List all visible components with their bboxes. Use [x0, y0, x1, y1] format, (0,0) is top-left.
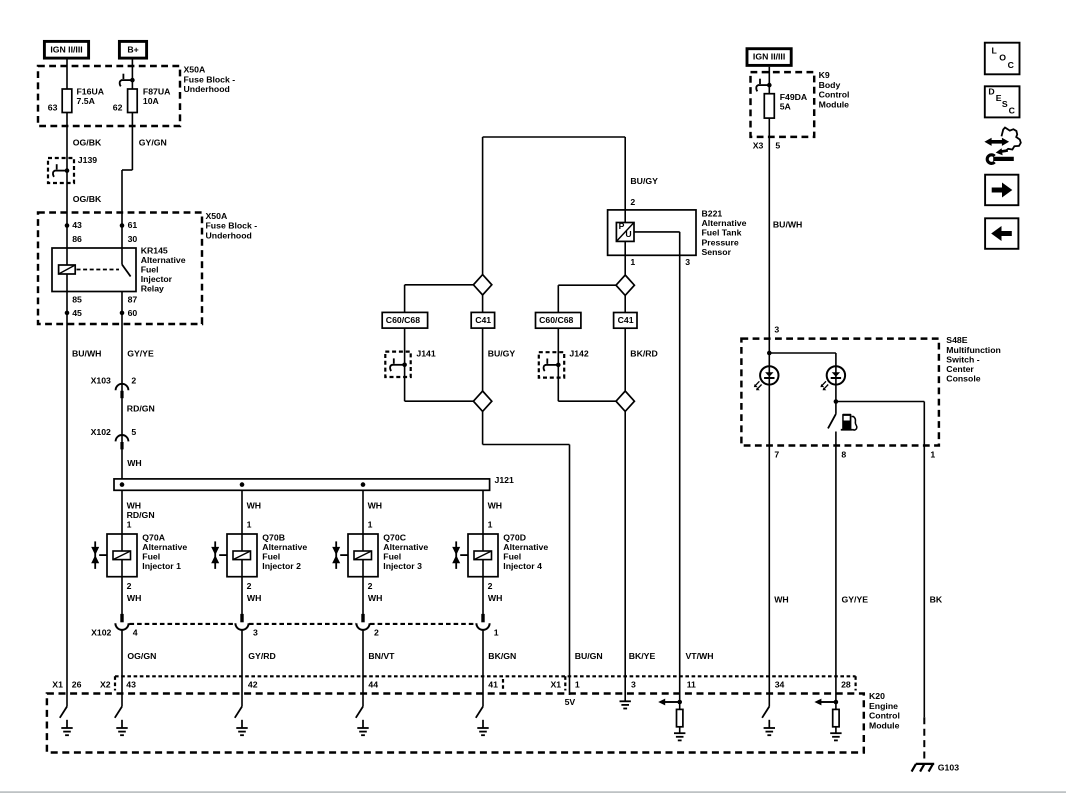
ECM pull-up and ground pin 11	[677, 700, 682, 705]
svg-text:Module: Module	[819, 99, 850, 109]
indicator LED 2	[835, 366, 837, 401]
injector Q70C valve symbol	[335, 541, 337, 569]
svg-text:Console: Console	[946, 374, 980, 384]
svg-text:28: 28	[841, 679, 851, 689]
svg-text:BU/WH: BU/WH	[72, 348, 101, 358]
wire C41 right column	[624, 295, 626, 312]
ECM driver switch and ground pin 43	[115, 707, 122, 718]
connector X102 inline symbol col 2	[240, 614, 243, 622]
relay KR145 switch	[121, 248, 123, 265]
injector Q70B Q70B box	[227, 534, 257, 577]
connector X102 inline symbol col 4	[481, 614, 484, 622]
svg-text:Fuel: Fuel	[141, 265, 159, 275]
ECM driver switch and ground pin 41	[476, 707, 483, 718]
svg-text:41: 41	[488, 679, 498, 689]
svg-text:Relay: Relay	[141, 284, 164, 294]
svg-text:X50A: X50A	[184, 65, 206, 75]
wire BK to ground G103 dashed segment	[923, 717, 925, 762]
sidebar repair icon small arrow	[1000, 150, 1008, 151]
injector Q70C Q70C box	[348, 534, 378, 577]
wire IGN to K9 fuse	[768, 67, 770, 94]
svg-text:RD/GN: RD/GN	[127, 404, 155, 414]
injector Q70A valve symbol	[94, 541, 96, 569]
branch wires upper left splice	[405, 284, 474, 286]
multifunction switch S48E dashed box	[741, 339, 939, 446]
svg-text:F87UA: F87UA	[143, 86, 171, 96]
wire 5V reference to ECM pin 1	[482, 411, 484, 444]
wire BU/WH relay 85 to ECM pin 26	[66, 274, 68, 707]
svg-text:OG/GN: OG/GN	[127, 651, 156, 661]
injector Q70D coil	[482, 534, 484, 551]
svg-text:1: 1	[488, 520, 493, 530]
svg-text:RD/GN: RD/GN	[127, 510, 155, 520]
splice diamond lower left	[405, 400, 474, 402]
svg-text:S: S	[1002, 99, 1008, 109]
ECM driver switch and ground pin 26	[60, 707, 67, 718]
wire WH injector Q70B to X102	[241, 577, 243, 615]
svg-text:2: 2	[131, 376, 136, 386]
svg-text:X50A: X50A	[206, 211, 228, 221]
wire J121 to injector Q70A	[121, 490, 123, 534]
node pin 61	[120, 223, 125, 228]
relay KR145 coil	[59, 265, 76, 274]
injector Q70A Q70A box	[107, 534, 137, 577]
fuse block X50A (lower) dashed box	[38, 213, 202, 325]
wire J141 branch	[404, 328, 406, 401]
svg-text:C: C	[1008, 60, 1015, 70]
wire WH injector Q70A to X102	[121, 577, 123, 615]
svg-text:8: 8	[841, 449, 846, 459]
injector Q70B coil	[241, 534, 243, 551]
relay KR145 box	[52, 248, 136, 292]
splice J141 dashed box	[385, 352, 410, 377]
pressure sensor B221 box	[608, 210, 696, 255]
svg-text:C41: C41	[618, 315, 634, 325]
svg-text:WH: WH	[247, 593, 261, 603]
splice diamond upper right	[616, 275, 634, 295]
svg-text:WH: WH	[774, 595, 788, 605]
svg-text:WH: WH	[127, 500, 141, 510]
svg-text:B221: B221	[702, 209, 723, 219]
svg-text:OG/BK: OG/BK	[73, 137, 102, 147]
svg-text:Underhood: Underhood	[206, 230, 252, 240]
B221 internal wire to pin 3	[634, 231, 680, 233]
ECM driver switch and ground pin 44	[356, 707, 363, 718]
connector C41 box (right)	[614, 313, 637, 329]
svg-text:X1: X1	[52, 679, 63, 689]
svg-text:WH: WH	[368, 500, 382, 510]
splice J142 dashed box	[539, 352, 564, 377]
svg-text:G103: G103	[938, 763, 959, 773]
svg-text:J121: J121	[495, 475, 514, 485]
svg-text:GY/YE: GY/YE	[127, 348, 154, 358]
sidebar repair icon wrench	[987, 155, 994, 164]
svg-text:60: 60	[128, 308, 138, 318]
svg-text:GY/RD: GY/RD	[248, 651, 276, 661]
svg-text:WH: WH	[488, 593, 502, 603]
svg-text:GY/GN: GY/GN	[139, 137, 167, 147]
svg-text:IGN II/III: IGN II/III	[50, 44, 82, 54]
fuse F49DA 5A	[764, 94, 774, 118]
splice J142 clip symbol	[556, 363, 561, 368]
node pin 43	[65, 223, 70, 228]
svg-text:BU/GY: BU/GY	[630, 176, 658, 186]
power feed box IGN II/III (right)	[747, 49, 791, 66]
svg-text:3: 3	[774, 325, 779, 335]
svg-text:X1: X1	[551, 679, 562, 689]
svg-text:Pressure: Pressure	[702, 237, 739, 247]
svg-text:Alternative: Alternative	[141, 255, 186, 265]
svg-text:1: 1	[630, 257, 635, 267]
svg-text:Engine: Engine	[869, 701, 898, 711]
svg-text:Center: Center	[946, 364, 974, 374]
svg-text:2: 2	[127, 581, 132, 591]
svg-text:Alternative: Alternative	[383, 542, 428, 552]
svg-text:C: C	[1009, 105, 1016, 115]
svg-text:Injector 4: Injector 4	[503, 561, 542, 571]
node pin 45	[65, 311, 70, 316]
wire injector Q70C to ECM	[362, 630, 364, 706]
svg-text:Q70A: Q70A	[142, 533, 165, 543]
svg-text:X102: X102	[91, 628, 111, 638]
wire WH injector Q70D to X102	[482, 577, 484, 615]
svg-text:Alternative: Alternative	[142, 542, 187, 552]
svg-text:X2: X2	[100, 679, 111, 689]
svg-text:2: 2	[368, 581, 373, 591]
J121 junction dots	[120, 482, 125, 487]
sidebar repair icon double arrow	[990, 140, 1003, 144]
sidebar LOC button	[985, 43, 1020, 75]
svg-text:34: 34	[775, 679, 785, 689]
svg-text:Fuel: Fuel	[503, 552, 521, 562]
svg-text:Control: Control	[819, 90, 850, 100]
svg-text:Alternative: Alternative	[262, 542, 307, 552]
svg-text:Fuse Block -: Fuse Block -	[206, 221, 258, 231]
wire BK/YE low reference to ECM pin 3	[624, 411, 626, 701]
engine control module K20 dashed box	[47, 694, 864, 753]
svg-text:43: 43	[126, 679, 136, 689]
wire injector Q70D to ECM	[482, 630, 484, 706]
svg-text:Q70C: Q70C	[383, 533, 406, 543]
svg-text:44: 44	[368, 679, 378, 689]
svg-text:1: 1	[930, 449, 935, 459]
svg-text:X103: X103	[91, 376, 111, 386]
S48E switch branch node	[834, 399, 839, 404]
wire B+ to fuse F87UA	[131, 60, 133, 90]
svg-text:GY/YE: GY/YE	[842, 595, 869, 605]
power feed box B+	[119, 41, 146, 58]
svg-text:1: 1	[247, 520, 252, 530]
svg-text:X102: X102	[91, 427, 111, 437]
svg-text:5A: 5A	[780, 101, 792, 111]
svg-text:3: 3	[253, 628, 258, 638]
svg-text:30: 30	[128, 234, 138, 244]
svg-text:IGN II/III: IGN II/III	[753, 52, 785, 62]
injector Q70B valve symbol	[214, 541, 216, 569]
wire BU/WH K9 to S48E pin 3	[768, 118, 770, 353]
svg-text:OG/BK: OG/BK	[73, 194, 102, 204]
indicator LED 1	[768, 353, 770, 707]
svg-text:BK: BK	[930, 595, 943, 605]
ECM driver switch and ground pin 42	[235, 707, 242, 718]
ECM connector dotted rail	[115, 675, 856, 677]
sidebar back arrow button	[985, 218, 1018, 249]
svg-text:Injector 1: Injector 1	[142, 561, 181, 571]
svg-text:43: 43	[72, 220, 82, 230]
fuse block X50A (upper) dashed box	[38, 66, 180, 126]
svg-text:1: 1	[368, 520, 373, 530]
ECM switch and ground pin 34	[768, 706, 770, 708]
fuel pump icon	[841, 414, 853, 431]
splice diamond lower right	[558, 400, 616, 402]
svg-text:Switch -: Switch -	[946, 354, 979, 364]
splice J141 clip symbol	[402, 363, 407, 368]
svg-text:Fuel Tank: Fuel Tank	[702, 228, 742, 238]
svg-text:Underhood: Underhood	[184, 84, 230, 94]
splice J139 clip symbol	[65, 168, 70, 173]
svg-text:Injector 3: Injector 3	[383, 561, 422, 571]
svg-text:Fuel: Fuel	[262, 552, 280, 562]
wire OG/BK fuse 63 to J139	[66, 113, 68, 266]
svg-text:Alternative: Alternative	[503, 542, 548, 552]
svg-text:WH: WH	[247, 500, 261, 510]
svg-text:K9: K9	[819, 70, 830, 80]
svg-text:5V: 5V	[565, 697, 576, 707]
wire GY/YE relay 87 down	[121, 292, 123, 479]
svg-text:63: 63	[48, 103, 58, 113]
svg-text:X3: X3	[753, 141, 764, 151]
svg-text:45: 45	[72, 308, 82, 318]
svg-text:BU/GN: BU/GN	[575, 651, 603, 661]
svg-text:C60/C68: C60/C68	[386, 315, 420, 325]
svg-text:BU/GY: BU/GY	[488, 348, 516, 358]
body control module K9 dashed box	[751, 72, 815, 137]
svg-text:BU/WH: BU/WH	[773, 220, 802, 230]
svg-text:62: 62	[113, 103, 123, 113]
wire J121 to injector Q70D	[482, 490, 484, 534]
svg-text:J142: J142	[569, 349, 588, 359]
svg-text:Fuse Block -: Fuse Block -	[184, 74, 236, 84]
svg-text:P: P	[619, 221, 625, 231]
S48E internal branch node	[767, 351, 772, 356]
B221 internal wire pin 1	[624, 241, 626, 274]
wire injector Q70B to ECM	[241, 630, 243, 706]
injector Q70A coil	[121, 534, 123, 551]
svg-text:Injector: Injector	[141, 274, 173, 284]
svg-text:L: L	[992, 45, 998, 55]
injector Q70C coil	[362, 534, 364, 551]
wire C41 left column	[482, 295, 484, 313]
svg-text:Q70D: Q70D	[503, 533, 526, 543]
ground G103 symbol	[916, 763, 934, 765]
svg-text:7: 7	[774, 449, 779, 459]
node pin 60	[120, 311, 125, 316]
svg-text:S48E: S48E	[946, 335, 967, 345]
connector X102 inline symbol col 3	[361, 614, 364, 622]
svg-text:1: 1	[575, 679, 580, 689]
sidebar next arrow button	[985, 175, 1018, 206]
svg-text:11: 11	[687, 679, 696, 689]
svg-text:Injector 2: Injector 2	[262, 561, 301, 571]
svg-text:Body: Body	[819, 80, 841, 90]
wire IGN II/III to fuse F16UA	[66, 60, 68, 90]
svg-text:2: 2	[488, 581, 493, 591]
connector X102 inline symbol col 1	[120, 614, 123, 622]
svg-text:Fuel: Fuel	[142, 552, 160, 562]
svg-text:KR145: KR145	[141, 246, 168, 256]
svg-text:F16UA: F16UA	[77, 86, 105, 96]
connector C60/C68 box (left)	[382, 312, 427, 328]
svg-text:2: 2	[630, 197, 635, 207]
svg-text:C60/C68: C60/C68	[539, 315, 573, 325]
svg-text:E: E	[996, 93, 1002, 103]
svg-text:Module: Module	[869, 720, 900, 730]
svg-text:WH: WH	[127, 593, 141, 603]
svg-text:VT/WH: VT/WH	[686, 651, 714, 661]
svg-text:J141: J141	[416, 349, 435, 359]
power feed box IGN II/III (left)	[44, 41, 88, 58]
svg-text:Control: Control	[869, 711, 900, 721]
wire injector Q70A to ECM	[121, 630, 123, 706]
clip symbol in K9	[767, 83, 772, 88]
svg-text:26: 26	[72, 679, 82, 689]
injector Q70D Q70D box	[468, 534, 498, 577]
wire J121 to injector Q70C	[362, 490, 364, 534]
svg-text:4: 4	[133, 628, 138, 638]
svg-text:Sensor: Sensor	[702, 247, 732, 257]
svg-text:5: 5	[131, 427, 136, 437]
svg-text:BK/GN: BK/GN	[488, 651, 516, 661]
svg-text:F49DA: F49DA	[780, 92, 808, 102]
svg-text:2: 2	[374, 628, 379, 638]
wire top run splice to B221 pin 2	[483, 136, 626, 138]
svg-text:BK/RD: BK/RD	[630, 349, 658, 359]
clip symbol on B+ feed	[130, 78, 135, 83]
svg-text:42: 42	[248, 679, 258, 689]
svg-text:Fuel: Fuel	[383, 552, 401, 562]
svg-text:5: 5	[775, 141, 780, 151]
sidebar repair icon panel outline	[1000, 128, 1021, 152]
S48E fuel selector switch	[835, 402, 837, 414]
fuse F87UA 10A	[128, 89, 138, 113]
wire GY/GN fuse 62 down with jog	[131, 113, 133, 171]
injector Q70D valve symbol	[455, 541, 457, 569]
svg-text:D: D	[988, 87, 994, 97]
splice diamond upper left	[473, 275, 491, 295]
svg-text:WH: WH	[488, 500, 502, 510]
page footer divider	[0, 791, 1066, 793]
svg-text:WH: WH	[127, 458, 141, 468]
svg-text:BK/YE: BK/YE	[629, 651, 656, 661]
svg-text:B+: B+	[127, 44, 138, 54]
svg-text:87: 87	[128, 295, 138, 305]
svg-text:C41: C41	[475, 315, 491, 325]
pressure sensor B221 P/U symbol	[624, 210, 626, 223]
svg-text:Alternative: Alternative	[702, 218, 747, 228]
svg-text:7.5A: 7.5A	[77, 96, 96, 106]
svg-text:85: 85	[72, 295, 82, 305]
svg-text:Multifunction: Multifunction	[946, 345, 1001, 355]
connector C60/C68 box (right)	[536, 313, 581, 329]
svg-text:10A: 10A	[143, 96, 160, 106]
wire WH injector Q70C to X102	[362, 577, 364, 615]
branch wires upper right splice	[558, 284, 616, 286]
svg-text:2: 2	[247, 581, 252, 591]
wire J121 to injector Q70B	[241, 490, 243, 534]
svg-text:Q70B: Q70B	[262, 533, 285, 543]
svg-text:K20: K20	[869, 691, 885, 701]
relay KR145 dashed actuator link	[77, 269, 120, 271]
connector C41 box (left)	[471, 312, 494, 328]
svg-text:O: O	[999, 53, 1006, 63]
svg-text:61: 61	[128, 220, 138, 230]
svg-text:3: 3	[631, 679, 636, 689]
ECM internal ground pin 3	[620, 700, 631, 702]
svg-text:1: 1	[494, 628, 499, 638]
svg-text:86: 86	[72, 234, 82, 244]
svg-text:3: 3	[685, 257, 690, 267]
connector X102 harness dashed line	[130, 623, 236, 625]
fuse F16UA 7.5A	[62, 89, 72, 113]
svg-text:1: 1	[127, 520, 132, 530]
svg-text:U: U	[625, 229, 631, 239]
svg-text:WH: WH	[368, 593, 382, 603]
splice pack J121 bus	[114, 479, 490, 490]
wire J142 branch	[557, 328, 559, 401]
ECM pull-up and ground pin 28	[834, 700, 839, 705]
sidebar DESC button	[985, 86, 1020, 117]
svg-text:J139: J139	[78, 155, 97, 165]
splice J139 dashed box	[48, 158, 74, 183]
svg-text:BN/VT: BN/VT	[368, 651, 395, 661]
